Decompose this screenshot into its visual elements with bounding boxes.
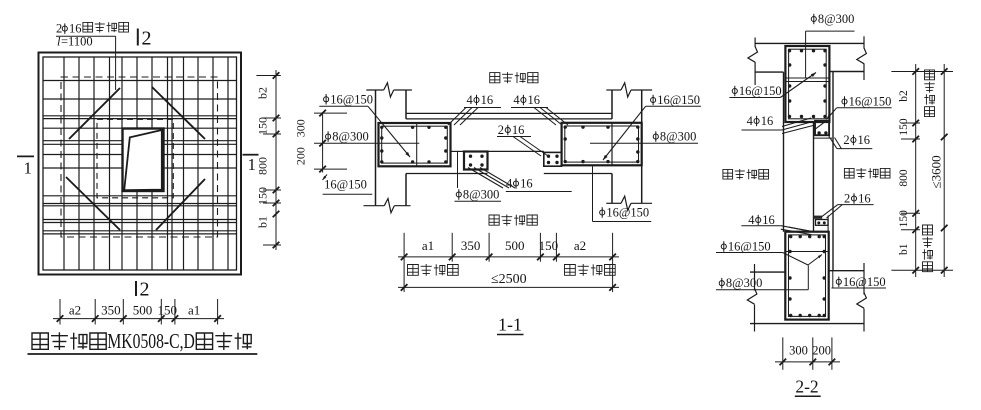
svg-text:800: 800 [898, 169, 910, 187]
label 2phi16 lower-right with leaders [822, 192, 874, 219]
section 1-1 overall dimension 2500 row [398, 262, 619, 292]
plan rebar grid horizontal bars [43, 81, 237, 234]
svg-text:b2: b2 [255, 87, 269, 99]
svg-text:16: 16 [512, 123, 525, 137]
label 4phi16 upper-left with leaders [742, 114, 816, 134]
label phi16@150 upper-right with leader [827, 95, 892, 120]
section 2-2 door leaf faces [784, 72, 834, 271]
svg-text:2-2: 2-2 [795, 377, 818, 397]
label phi16@150 upper-left with bent-bar leader [729, 73, 816, 99]
label phi16@150 lower-left with bent-bar leader [716, 240, 822, 266]
svg-text:2: 2 [843, 133, 849, 147]
svg-text:2: 2 [844, 192, 850, 206]
svg-text:1: 1 [24, 159, 33, 178]
svg-text:16@150: 16@150 [657, 93, 700, 107]
plan right dimension chain b2 150 800 150 b1 [255, 70, 281, 250]
section 2-2 outer dimension 3600 by project [922, 64, 947, 277]
svg-text:16: 16 [761, 114, 774, 128]
svg-text:2: 2 [498, 123, 504, 137]
svg-text:16: 16 [481, 93, 494, 107]
section 2-2 upper rib block 150 [813, 121, 832, 138]
svg-text:4: 4 [513, 93, 520, 107]
label 2phi16 upper-right with leaders [830, 133, 872, 149]
svg-text:16: 16 [69, 22, 82, 36]
svg-text:8@300: 8@300 [726, 276, 763, 290]
section marker 2 top [138, 28, 152, 50]
svg-text:16@150: 16@150 [606, 206, 649, 220]
plan dashed zone outline inner [97, 119, 173, 198]
label phi16@150 bottom-right with leader [593, 166, 652, 221]
label phi8@300 left with stirrup leader [314, 113, 419, 169]
svg-text:b1: b1 [255, 216, 269, 228]
svg-text:16: 16 [520, 177, 533, 191]
section 1-1 right wall [606, 83, 652, 211]
svg-text:8@300: 8@300 [660, 130, 697, 144]
svg-text:MK0508-C,D: MK0508-C,D [107, 329, 194, 353]
svg-text:2: 2 [142, 28, 152, 50]
section 2-2 right dimension chain b2 150 800 150 b1 [891, 64, 953, 277]
svg-text:150: 150 [255, 187, 269, 205]
label 4phi16 bottom with leaders [468, 168, 572, 192]
svg-text:2: 2 [56, 22, 62, 36]
svg-text:500: 500 [133, 303, 153, 318]
section 1-1 left edge beam with stirrup and bars [379, 123, 451, 166]
svg-text:16: 16 [858, 192, 871, 206]
svg-text:2: 2 [140, 279, 150, 301]
svg-text:350: 350 [101, 303, 121, 318]
svg-text:≤3600: ≤3600 [929, 155, 944, 188]
label phi8@300 lower-left with stirrup leader [716, 265, 808, 290]
section marker 1 right [243, 155, 259, 174]
label 4phi16 upper-left with leaders [448, 93, 501, 125]
svg-text:200: 200 [294, 147, 308, 165]
svg-text:a1: a1 [422, 238, 434, 253]
section 2-2 bottom edge beam block [785, 232, 828, 320]
section 1-1 niche bottom faces [406, 173, 612, 175]
section marker 1 left [17, 156, 34, 177]
label fang hu qu wai section 2-2 [723, 169, 769, 180]
svg-text:800: 800 [255, 157, 269, 175]
svg-text:b2: b2 [898, 90, 910, 102]
svg-text:16: 16 [528, 93, 541, 107]
svg-text:1-1: 1-1 [498, 315, 522, 335]
svg-text:16: 16 [762, 213, 775, 227]
svg-text:200: 200 [812, 343, 831, 357]
plan dashed zone outline outer [61, 77, 218, 237]
corner bar 2phi16 bottom-left [66, 177, 120, 230]
svg-text:16: 16 [858, 133, 871, 147]
section 2-2 top lintel wall [748, 36, 867, 85]
svg-text:≤2500: ≤2500 [491, 272, 527, 287]
corner bar 2phi16 bottom-right [156, 179, 205, 230]
svg-text:4: 4 [747, 114, 754, 128]
svg-text:16@150: 16@150 [324, 178, 367, 192]
svg-text:a2: a2 [69, 303, 81, 318]
svg-text:16@150: 16@150 [739, 84, 782, 98]
section 2-2 bottom dimension 300 200 [775, 337, 840, 369]
svg-text:150: 150 [539, 238, 559, 253]
door opening frame [123, 129, 164, 192]
door leaf quadrilateral [124, 130, 162, 190]
section title 1-1 [497, 315, 524, 335]
svg-text:150: 150 [898, 118, 910, 136]
svg-text:a1: a1 [188, 303, 200, 318]
svg-text:300: 300 [294, 119, 308, 137]
label phi8@300 under left rib with leader [455, 158, 502, 202]
svg-text:8@300: 8@300 [332, 130, 369, 144]
plan title MK0508-C,D with underline [28, 329, 258, 354]
svg-text:4: 4 [467, 93, 474, 107]
section 2-2 bottom sill wall [747, 263, 866, 332]
svg-text:150: 150 [255, 117, 269, 135]
svg-text:16@150: 16@150 [728, 240, 771, 254]
svg-text:16@150: 16@150 [330, 92, 373, 106]
corner bar 2phi16 top-left [69, 88, 120, 139]
section 1-1 right small rib block [544, 152, 562, 166]
svg-text:16@150: 16@150 [849, 95, 892, 109]
label phi8@300 top with stirrup leader [806, 12, 855, 78]
svg-text:150: 150 [898, 210, 910, 228]
label fang hu qu nei section 2-2 [844, 168, 890, 179]
label phi16@150 top-right with bent-bar leader [603, 93, 701, 160]
corner bar 2phi16 top-right [152, 87, 205, 139]
label fang hu qu nei (inside zone) [489, 215, 537, 226]
label 4phi16 lower-left with leaders [741, 213, 813, 235]
svg-text:8@300: 8@300 [463, 188, 500, 202]
section 2-2 top edge beam block [785, 46, 829, 122]
svg-text:500: 500 [505, 238, 525, 253]
label 4phi16 upper-right with leaders [511, 93, 568, 125]
label fang hu qu wai (outside zone) [490, 72, 538, 83]
section 1-1 middle recess bottom [451, 151, 544, 166]
svg-text:350: 350 [461, 238, 481, 253]
section 1-1 left dimension 300 200 [294, 110, 326, 173]
label phi8@300 right with stirrup leader [590, 130, 698, 144]
label 16@150 bottom-left [323, 175, 373, 195]
plan view outer border (double square) [39, 53, 242, 275]
section 2-2 lower rib block 150 [814, 216, 829, 232]
plan rebar grid vertical bars [64, 57, 228, 270]
svg-text:b1: b1 [898, 243, 910, 255]
section 1-1 niche top faces [406, 113, 612, 119]
svg-text:8@300: 8@300 [818, 12, 855, 26]
plan bottom dimension chain a2 350 500 150 a1 [53, 299, 224, 325]
section 1-1 left wall [364, 83, 412, 213]
section marker 2 bottom [136, 279, 150, 301]
section title 2-2 [795, 377, 821, 397]
plan label 2phi16 corner bars with leader [56, 22, 129, 91]
svg-text:a2: a2 [574, 238, 586, 253]
section 1-1 right edge beam with stirrup and bars [562, 123, 642, 166]
svg-text:300: 300 [789, 343, 808, 357]
label phi16@150 top-left with bent-bar leader [319, 92, 410, 157]
label 2phi16 middle with leaders [497, 123, 548, 156]
section 1-1 bottom dimension chain a1 350 500 150 a2 [398, 233, 619, 262]
svg-text:4: 4 [748, 213, 755, 227]
section 1-1 left small rib block [464, 152, 488, 170]
label phi16@150 lower-right with leader [831, 271, 886, 289]
svg-text:150: 150 [157, 303, 177, 318]
